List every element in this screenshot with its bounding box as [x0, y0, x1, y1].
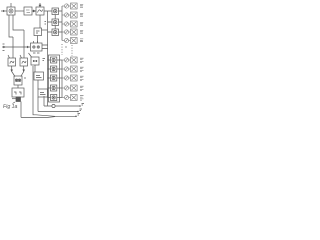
svg-text:Fig 1a: Fig 1a [3, 104, 18, 110]
